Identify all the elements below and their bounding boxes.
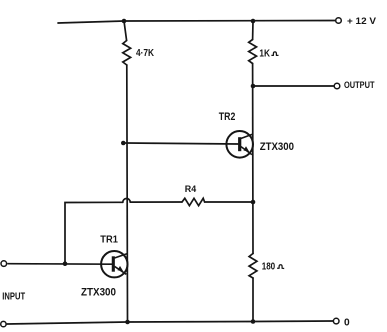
svg-text:INPUT: INPUT [2, 292, 25, 303]
svg-text:+ 12 V: + 12 V [347, 16, 377, 26]
svg-text:1K: 1K [259, 49, 270, 60]
svg-text:180: 180 [262, 261, 276, 272]
svg-text:0: 0 [344, 317, 350, 328]
svg-text:R4: R4 [185, 184, 197, 194]
svg-text:TR1: TR1 [100, 234, 118, 245]
svg-text:4·7K: 4·7K [136, 48, 155, 59]
svg-text:ZTX300: ZTX300 [81, 287, 116, 299]
svg-text:TR2: TR2 [219, 111, 236, 123]
svg-text:OUTPUT: OUTPUT [344, 80, 375, 90]
svg-text:ZTX300: ZTX300 [260, 141, 294, 153]
